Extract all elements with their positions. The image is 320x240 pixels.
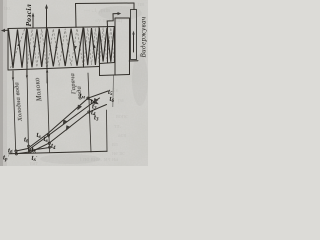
tiny flow arrowheads inside sections [17,42,20,46]
down arrow below divider1 [26,70,28,77]
graph vertical v3 [88,73,91,152]
graph baseline [9,151,107,154]
paper background [0,0,148,166]
milk inlet up arrow below divider2 [46,71,48,83]
temperature line L1 (regeneration heating) [29,98,100,150]
svg-text:пв: пв [138,2,144,8]
plate zigzag section4 solid [84,28,114,66]
big up arrow above divider2 [46,7,48,28]
graph vertical v0 (brine axis) [13,80,16,151]
svg-text:Розсіл: Розсіл [24,4,33,27]
graph vertical v1 [27,69,29,153]
svg-text:Видержувач: Видержувач [141,16,148,57]
vertical stub below vessel [112,76,115,108]
svg-text:тл.: тл. [114,124,121,130]
elbow pipe with arrow (pasteurized milk out) [107,14,119,27]
small up arrow beside Rozsil label [32,15,34,28]
pipe drop into holder [133,3,135,10]
plate zigzag section4 dashed [84,28,114,66]
svg-text:не вс: не вс [112,151,125,157]
apparatus top edge [8,27,115,29]
short line left of cluster [16,148,29,151]
shallow line cluster to v2 [29,148,50,151]
L1 arrowhead end [94,98,99,103]
holding tube foot [129,60,138,62]
plate zigzag section2 dashed [27,29,46,67]
separator vessel right of apparatus [115,18,130,75]
section divider 2 [46,28,49,69]
section 5 bottom edge [100,63,115,64]
scan ghost smudges [4,2,144,167]
plate zigzag section1 dashed [11,29,25,68]
graph vertical v2 [47,69,50,153]
plate zigzag section1 solid [9,29,27,68]
apparatus bottom edge [8,67,100,71]
plate zigzag section3 solid [47,28,83,66]
apparatus right edge [114,27,116,63]
holding tube (viderzhuvach) [131,10,137,60]
page edge shading left [0,0,3,166]
L2 arrowhead [66,125,71,131]
temperature line L2 (lower) [30,105,107,153]
graph vertical v4 [106,110,109,152]
plate zigzag section2 solid [27,29,46,67]
section divider 1 [26,28,29,69]
section divider 3 [82,27,85,67]
section divider 4 [98,27,101,67]
svg-text:вл: вл [112,142,118,148]
top pipe to holder [76,2,135,5]
node circles [15,150,17,152]
apparatus left edge [7,29,9,71]
svg-text:ра: ра [118,98,124,104]
milk riser pipe [75,4,78,28]
vessel / step box bottom [100,67,130,76]
L3 arrowhead [77,105,82,111]
arrow inside holding tube [133,33,135,52]
L1 arrowhead mid [63,120,68,126]
svg-text:асв: асв [118,133,126,139]
brine outlet arrow left [2,29,8,31]
temperature line L3 (upper parallel) [29,91,108,148]
plate zigzag section3 dashed [47,29,83,67]
down arrow below apparatus left [12,71,14,79]
svg-text:ію.: ію. [4,6,12,12]
svg-text:вопс: вопс [116,114,128,120]
section divider 5 [107,27,109,63]
